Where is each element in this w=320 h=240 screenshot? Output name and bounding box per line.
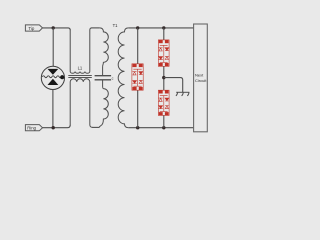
surge arrester GDT — [41, 66, 64, 89]
svg-text:c: c — [112, 76, 114, 80]
inductor L1 bottom winding — [70, 79, 92, 128]
inductor L1 top winding — [70, 28, 92, 73]
net flag Ring — [25, 125, 42, 131]
next circuit box — [194, 24, 208, 132]
wire Tip top — [43, 28, 71, 30]
inductor L1 core — [68, 76, 92, 78]
ground — [176, 92, 189, 96]
surge protector U1 — [132, 64, 143, 90]
svg-text:Tip: Tip — [28, 26, 34, 31]
transformer T1 secondary winding — [118, 28, 128, 128]
node Tip junction — [52, 26, 55, 29]
surge protector U3 — [158, 90, 169, 115]
node top wire at U2 — [162, 26, 165, 29]
node top wire at U1 — [136, 26, 139, 29]
wire secondary bottom — [129, 127, 194, 129]
wire U1 top lead — [137, 28, 139, 64]
transformer T1 primary bottom winding — [99, 80, 108, 127]
wire GDT bottom lead — [52, 90, 54, 128]
wire GDT top lead — [52, 28, 54, 66]
svg-text:T1: T1 — [113, 23, 119, 28]
node bottom wire at U1 — [136, 126, 139, 129]
wire U2 to U3 — [163, 66, 165, 90]
svg-text:Ring: Ring — [27, 126, 36, 131]
svg-text:L1: L1 — [78, 66, 83, 71]
wire U3 bottom lead — [163, 115, 165, 127]
capacitor C plates — [95, 76, 112, 80]
svg-text:Circuit: Circuit — [195, 78, 207, 83]
net flag Tip — [25, 25, 42, 31]
wire secondary top — [129, 27, 194, 29]
node ground junction — [162, 76, 165, 79]
wire to ground — [164, 78, 183, 93]
wire primary top — [92, 27, 100, 29]
wire U1 bottom lead — [137, 90, 139, 128]
wire primary bottom — [92, 126, 99, 128]
surge protector U2 — [158, 40, 169, 66]
node Ring junction — [52, 126, 55, 129]
transformer T1 primary top winding — [100, 28, 109, 76]
wire U2 top lead — [163, 28, 165, 40]
node bottom wire at U2 — [162, 126, 165, 129]
wire Ring bottom — [43, 125, 71, 128]
